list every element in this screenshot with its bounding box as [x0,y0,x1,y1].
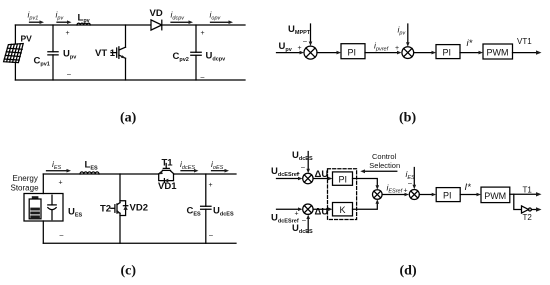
svg-text:VT 1: VT 1 [95,48,116,59]
svg-text:PI: PI [443,191,452,201]
wire: PI to summer b2 [365,51,402,55]
label + at summer d1 [296,171,300,178]
current arrow i_opv [211,20,234,24]
wire: summer d1 to PI [313,177,332,181]
wire: merge to summer d4 [382,193,409,197]
arrow: control selection to dashed box [360,169,397,173]
wire: U_pv into summer [277,51,305,55]
wire: PI3 to PWM2 [460,193,481,197]
PV module symbol [4,44,24,63]
wire: battery box bottom to bottom bus [42,221,44,243]
svg-text:i*: i* [467,38,473,49]
diode VD [151,20,162,30]
label U_pv [63,49,77,61]
capacitor C_pv1 [48,25,58,80]
label - at summer b1 [303,39,307,46]
label VT1 [517,37,532,46]
svg-text:(a): (a) [120,111,137,126]
label T1 [162,158,174,169]
label i_pv at summer b2 [398,25,407,37]
summing junction d1 [303,173,313,183]
label + at summer b1 [298,45,302,52]
summing junction d3 (merge) [373,190,383,200]
svg-text:Storage: Storage [11,184,40,193]
svg-text:–: – [303,39,307,46]
caption (c) [121,264,137,279]
label U_dcES bottom [292,223,313,235]
svg-text:PI: PI [339,174,348,184]
svg-text:Selection: Selection [369,161,400,170]
label T2 out [523,213,533,222]
diode VD1 bypass branch [159,174,174,183]
block PI (current loop) [436,45,460,59]
current arrow i_ES [47,169,72,173]
summing junction b2 [402,47,414,59]
label i_opv [210,10,222,22]
label i_ESref [387,183,403,195]
svg-text:–: – [301,165,305,172]
svg-text:Energy: Energy [13,174,38,183]
label + for U_pv [66,30,70,37]
wire: (c) bottom bus [43,242,236,244]
svg-text:–: – [302,218,306,225]
wire: K out to merge summer [353,199,380,209]
wire: i_pv down into summer b2 [406,24,410,47]
label + for U_dcES [209,182,213,189]
label U_dcpv [206,51,227,63]
wire: (a) top bus [15,24,245,26]
label - for U_ES [60,233,64,240]
wire: (a) left vertical [14,25,16,80]
svg-text:+: + [209,182,213,189]
svg-text:–: – [209,233,213,240]
label + at summer d2 [295,211,299,218]
label L_pv [78,13,91,25]
svg-text:VD2: VD2 [130,203,148,214]
label i_pv [56,10,65,22]
label dU' [315,207,331,218]
wire: summer b2 to PI2 [414,51,436,55]
label U_MPPT [288,24,311,36]
capacitor C_pv2 [191,25,201,80]
wire: row2 input into summer d2 [277,207,303,211]
svg-text:K: K [340,205,346,215]
svg-text:T2: T2 [100,204,111,215]
svg-text:T1: T1 [162,158,174,169]
svg-text:+: + [295,211,299,218]
wire: PWM output to VT1 [513,50,542,54]
label VD1 [158,181,177,192]
transistor T2 (IGBT) [111,174,121,243]
wire: (c) top bus [43,173,236,175]
label I* [465,182,472,193]
current arrow i_pv [57,20,72,24]
svg-text:+: + [298,45,302,52]
label - at summer d4 [408,180,412,187]
block K [333,203,353,216]
wire: summer d4 to PI3 [419,193,436,197]
label U_dcESref row2 [271,213,299,225]
svg-text:+: + [59,180,63,187]
label U_dcES [213,206,234,218]
label U_dcESref row1 [271,166,299,178]
svg-text:+: + [296,171,300,178]
label - at summer d1 [301,165,305,172]
battery box [24,194,63,222]
svg-text:+: + [395,45,399,52]
label i_pvref [374,41,389,53]
wire: row1 input into summer d1 [277,177,303,181]
block PI (d) [333,172,353,185]
label i_ES [52,159,62,171]
summing junction d4 [409,190,419,200]
label dU [315,169,329,180]
wire: branch to inverter [514,194,522,209]
wire: summer d2 to K [313,207,332,211]
svg-text:VD1: VD1 [158,181,177,192]
svg-text:I*: I* [465,182,472,193]
label i_dcpv [171,10,186,22]
svg-text:–: – [67,72,71,79]
label VT 1 [95,48,116,59]
block PI (voltage loop) [341,44,365,59]
svg-text:(c): (c) [121,264,137,279]
svg-text:PI: PI [443,48,452,58]
label C_pv1 [34,56,50,68]
summing junction d2 [303,204,313,214]
label Energy Storage [11,174,40,193]
block PWM [483,44,513,59]
label - at summer d2 [302,218,306,225]
wire: U_MPPT down into summer [309,24,313,46]
label PV [21,34,33,44]
block PWM (d) [481,187,510,203]
label U_ES [68,207,83,219]
svg-text:(d): (d) [400,264,417,279]
battery symbol [29,196,41,219]
label i_pv1 [28,10,39,22]
wire: inverter output to T2 [531,207,541,211]
current arrow i_dcpv [171,20,193,24]
label i_oES [211,159,224,171]
caption (a) [120,111,137,126]
block PI (d current loop) [436,188,460,202]
label C_ES [187,206,202,218]
svg-text:–: – [408,180,412,187]
svg-text:T2: T2 [523,213,533,222]
label + at summer d4 [404,188,408,195]
svg-text:+: + [404,188,408,195]
control selection dashed box [328,169,357,220]
label C_pv2 [173,51,189,63]
svg-text:Control: Control [372,152,397,161]
svg-text:PV: PV [21,34,33,44]
svg-text:VD: VD [150,8,163,19]
wire: (a) bottom bus [15,79,245,81]
svg-text:T1: T1 [523,186,533,195]
wire: summer b1 to PI [317,51,341,55]
label - for U_pv [67,72,71,79]
label Control Selection [369,152,400,170]
capacitor C_ES [201,174,211,243]
wire: battery box top to top bus [42,174,44,194]
label i_ES at summer d4 [406,169,416,181]
caption (d) [400,264,417,279]
label T2 [100,204,111,215]
label + for U_ES [59,180,63,187]
svg-text:–: – [60,233,64,240]
label + at summer b2 [395,45,399,52]
wire: U_dcES down into summer d1 [306,152,310,174]
label - for U_dcES [209,233,213,240]
svg-text:+: + [66,30,70,37]
svg-text:PWM: PWM [487,47,509,57]
svg-text:+: + [201,30,205,37]
current arrow i_pv1 [30,20,45,24]
wire: i_ES down into summer d4 [413,168,417,190]
svg-text:PI: PI [348,47,357,57]
inverter (NOT gate) [522,206,532,213]
caption (b) [399,111,416,126]
label i* [467,38,473,49]
svg-text:PWM: PWM [484,191,506,201]
transistor T1 (IGBT, horizontal) [158,164,174,175]
inductor L_pv [77,23,90,25]
current arrow i_oES [212,169,230,173]
label + for U_dcpv [201,30,205,37]
diode VD2 branch [120,201,128,216]
wire: PWM2 output to T1 [510,192,542,196]
inductor L_ES [80,172,99,174]
label L_ES [85,160,98,172]
wire: PI2 to PWM [460,51,483,55]
label U_dcES top [292,150,313,162]
svg-text:(b): (b) [399,111,416,126]
svg-text:VT1: VT1 [517,37,532,46]
capacitor symbol in battery box [48,195,56,219]
label - for U_dcpv [201,74,205,81]
label VD [150,8,163,19]
current arrow i_dcES [181,169,199,173]
label i_dcES [180,159,195,171]
wire: PI out to merge summer [353,179,380,190]
summing junction b1 [304,46,317,59]
wire: U_dcES up into summer d2 [306,215,310,233]
svg-text:–: – [201,74,205,81]
label T1 out [523,186,533,195]
label VD2 [130,203,148,214]
transistor VT1 (IGBT) [111,25,126,80]
label U_pv input [279,41,293,53]
